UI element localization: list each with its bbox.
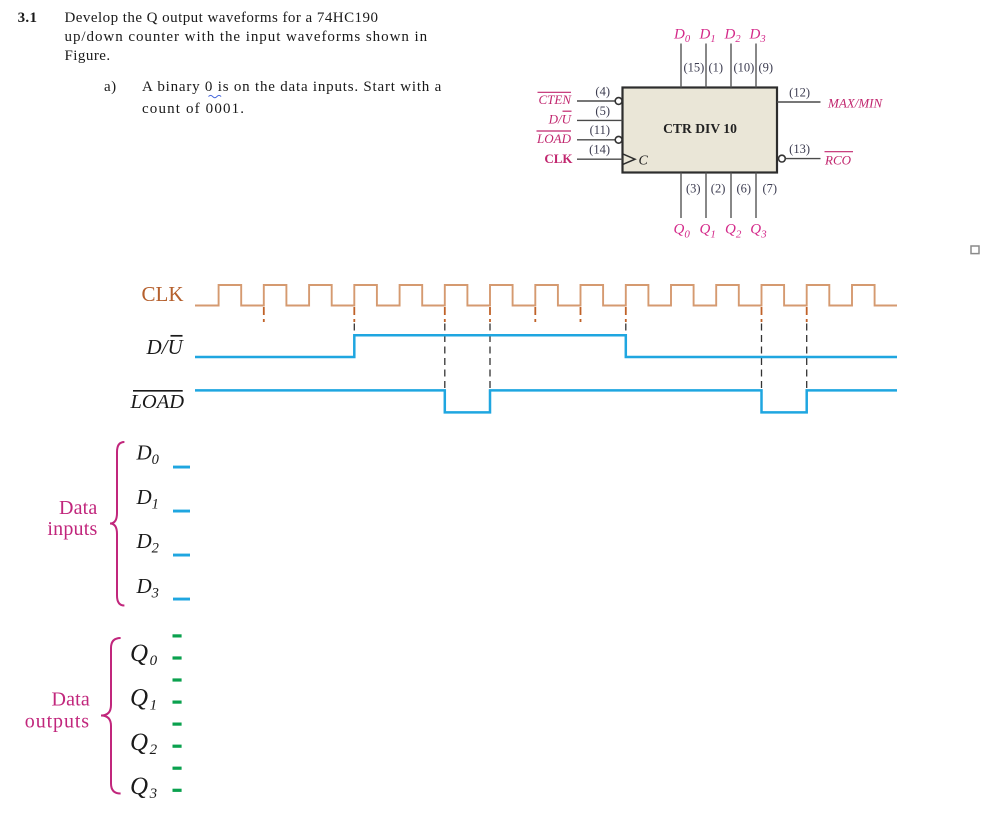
svg-text:(7): (7): [763, 182, 778, 196]
dash Q3 low: [173, 789, 182, 792]
overline U of D/U: [563, 110, 572, 112]
problem text 3.1: [18, 9, 38, 28]
item a): [104, 76, 117, 98]
pin Q2 bottom wire: [730, 173, 732, 219]
svg-text:Data: Data: [59, 497, 98, 519]
black dashed line at D/U fall 625.8: [625, 324, 627, 335]
svg-text:(12): (12): [789, 86, 810, 100]
svg-text:D0: D0: [136, 441, 160, 469]
problem statement: [65, 9, 429, 66]
squiggle under 0: [209, 95, 222, 97]
dash D2 level: [173, 554, 190, 557]
svg-text:(1): (1): [709, 61, 724, 75]
pin D/U wire: [577, 119, 623, 121]
svg-text:D2: D2: [724, 27, 742, 46]
svg-text:D3: D3: [749, 27, 766, 46]
overline U of D/U label: [171, 335, 183, 337]
svg-text:Q0: Q0: [130, 640, 158, 669]
svg-text:Q1: Q1: [130, 685, 157, 714]
black dashed line at LOAD fall 444.8: [444, 324, 446, 390]
svg-text:inputs: inputs: [47, 518, 97, 540]
dash Q0 low: [173, 656, 182, 659]
orange tick edge 263.8: [263, 307, 265, 322]
dash Q2 low: [173, 745, 182, 748]
small gray square marker: [971, 246, 979, 254]
svg-text:D1: D1: [699, 27, 716, 46]
svg-text:C: C: [639, 153, 649, 168]
svg-text:RCO: RCO: [824, 153, 852, 168]
dash D1 level: [173, 510, 190, 513]
dash Q3 high: [173, 767, 182, 770]
overline CTEN: [538, 91, 572, 93]
pin D1 top wire: [705, 44, 707, 88]
CLK waveform: [195, 285, 897, 306]
svg-text:Q2: Q2: [725, 222, 742, 241]
pin D2 top wire: [730, 44, 732, 88]
svg-text:LOAD: LOAD: [536, 131, 572, 146]
svg-text:D0: D0: [673, 27, 691, 46]
svg-text:CLK: CLK: [544, 151, 573, 166]
brace data outputs: [101, 638, 121, 794]
pin D0 top wire: [680, 44, 682, 88]
black dashed line at LOAD fall 761.5: [761, 324, 763, 390]
black dashed line at D/U rise 354.3: [353, 324, 355, 335]
pin D3 top wire: [755, 44, 757, 88]
orange tick edge 625.8: [625, 307, 627, 322]
counter block U1 CTR DIV 10: [623, 88, 778, 173]
svg-text:D/U: D/U: [146, 335, 185, 359]
dash Q1 high: [173, 678, 182, 681]
svg-text:(14): (14): [589, 143, 610, 157]
svg-text:LOAD: LOAD: [130, 391, 185, 413]
svg-text:outputs: outputs: [25, 711, 90, 733]
orange tick edge 535.3: [534, 307, 536, 322]
svg-text:(2): (2): [711, 182, 726, 196]
bubble RCO: [779, 155, 786, 162]
svg-text:(6): (6): [737, 182, 752, 196]
svg-text:D/U: D/U: [548, 111, 573, 126]
overline LOAD: [537, 130, 572, 132]
svg-text:MAX/MIN: MAX/MIN: [827, 96, 883, 111]
orange tick edge 761.5: [761, 307, 763, 322]
svg-text:Q1: Q1: [700, 222, 716, 241]
svg-text:D1: D1: [136, 485, 159, 513]
black dashed line at LOAD rise 806.7: [806, 324, 808, 390]
orange tick edge 444.8: [444, 307, 446, 322]
svg-text:Q2: Q2: [130, 729, 158, 758]
pin Q0 bottom wire: [680, 173, 682, 219]
pin MAX/MIN wire: [777, 101, 821, 103]
pin RCO wire: [785, 158, 820, 160]
dash Q1 low: [173, 701, 182, 704]
overline LOAD label: [133, 390, 183, 392]
svg-text:(10): (10): [734, 61, 755, 75]
svg-text:(5): (5): [595, 104, 610, 118]
overline RCO: [825, 151, 854, 153]
svg-text:Q3: Q3: [130, 773, 157, 802]
svg-text:(13): (13): [789, 142, 810, 156]
svg-text:(9): (9): [759, 61, 774, 75]
black dashed line at LOAD rise 490: [489, 324, 491, 390]
svg-text:CLK: CLK: [142, 282, 184, 306]
clock triangle: [623, 154, 636, 165]
pin LOAD wire: [577, 139, 615, 141]
dash Q0 high: [173, 634, 182, 637]
svg-text:D2: D2: [136, 529, 159, 557]
brace data inputs: [110, 442, 124, 606]
LOAD waveform: [195, 390, 897, 412]
pin CLK wire: [577, 158, 623, 160]
pin Q1 bottom wire: [705, 173, 707, 219]
svg-text:Q0: Q0: [674, 222, 691, 241]
orange tick edge 490: [489, 307, 491, 322]
svg-text:CTR DIV 10: CTR DIV 10: [663, 121, 737, 136]
svg-text:(3): (3): [686, 182, 701, 196]
svg-text:(11): (11): [590, 123, 610, 137]
orange tick edge 354.3: [353, 307, 355, 322]
svg-text:(15): (15): [684, 61, 705, 75]
pin CTEN wire: [577, 100, 615, 102]
dash D3 level: [173, 598, 190, 601]
svg-text:D3: D3: [136, 574, 159, 602]
bubble LOAD: [615, 136, 622, 143]
dash D0 level: [173, 466, 190, 469]
pin Q3 bottom wire: [755, 173, 757, 219]
D/U waveform: [195, 335, 897, 357]
bubble CTEN: [615, 98, 622, 105]
orange tick edge 806.7: [806, 307, 808, 322]
orange tick edge 580.5: [580, 307, 582, 322]
svg-text:(4): (4): [595, 85, 610, 99]
dash Q2 high: [173, 723, 182, 726]
svg-text:CTEN: CTEN: [538, 92, 572, 107]
svg-text:Q3: Q3: [750, 222, 767, 241]
svg-text:Data: Data: [51, 689, 90, 711]
